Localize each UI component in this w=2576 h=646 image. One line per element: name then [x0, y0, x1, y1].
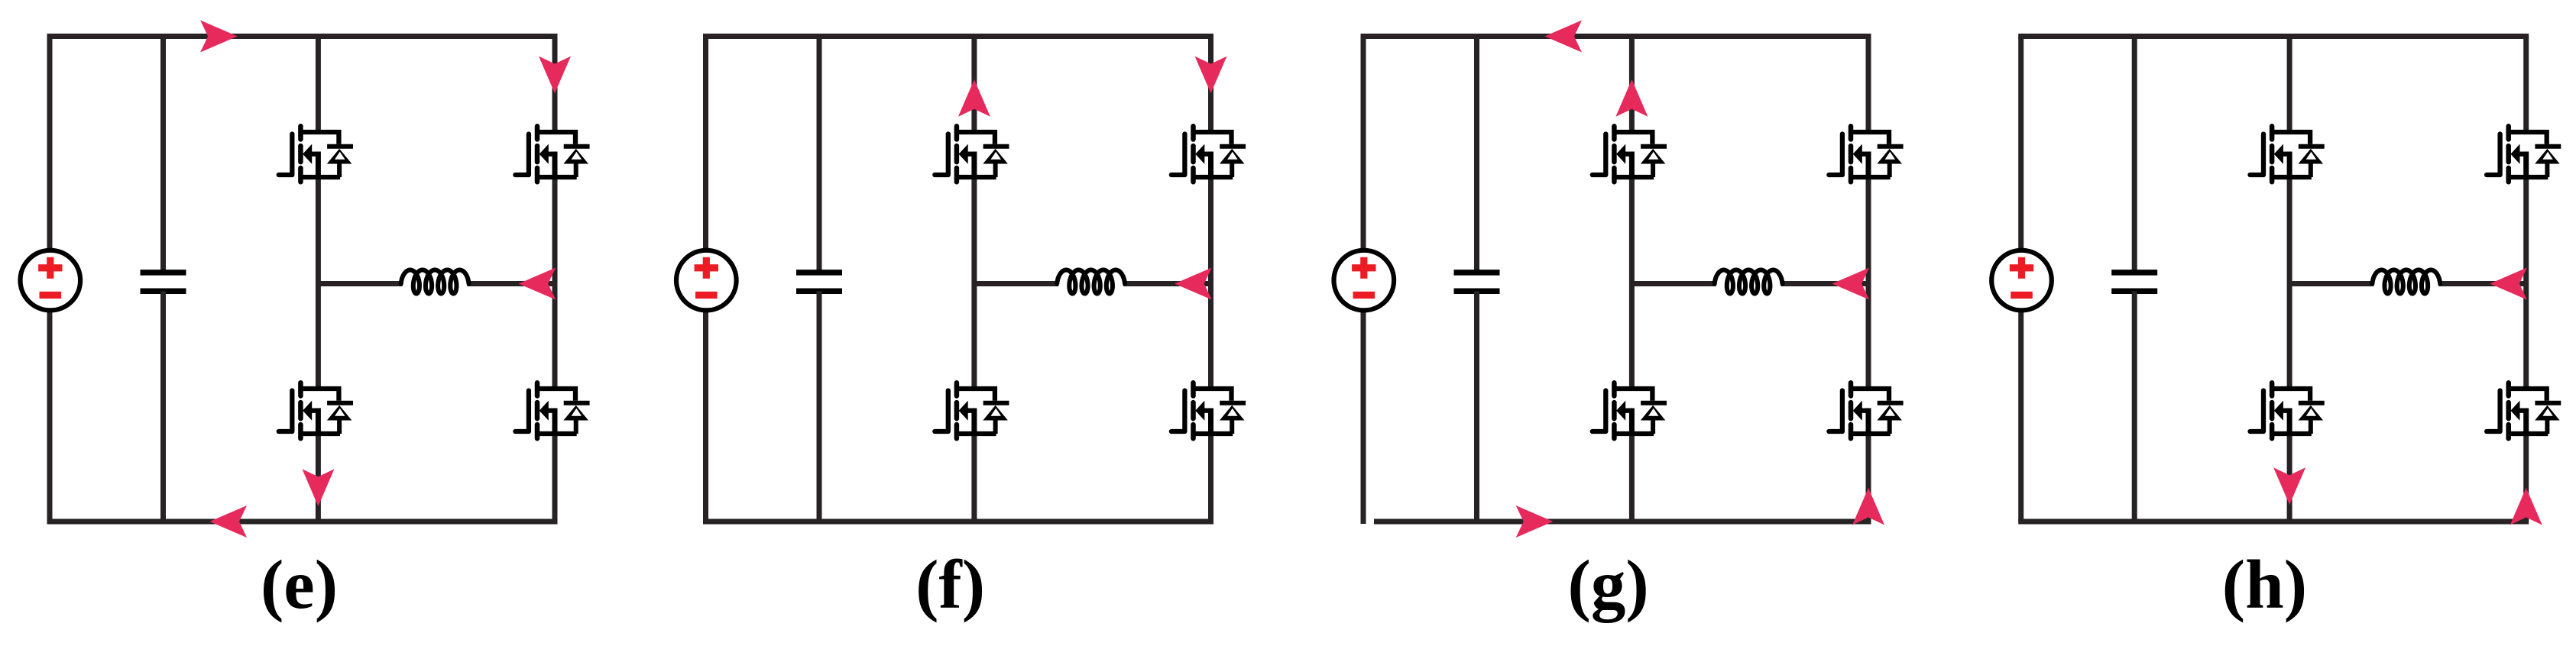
- current arrow top rail left: [1544, 21, 1582, 53]
- wire output right segment: [1123, 281, 1211, 286]
- current arrow left leg down: [302, 469, 334, 506]
- wire capacitor leg upper: [160, 37, 166, 273]
- wire left rail upper: [47, 37, 53, 250]
- svg-text:(h): (h): [2222, 546, 2307, 623]
- MOSFET Q1 with body diode: [1593, 126, 1667, 182]
- wire right rail drain Q2: [1208, 37, 1213, 133]
- wire right rail bottom: [2523, 434, 2529, 522]
- wire output right segment: [2438, 281, 2526, 286]
- svg-text:(e): (e): [261, 546, 338, 623]
- wire output left segment: [1631, 281, 1716, 286]
- wire left bridge leg middle: [2287, 177, 2292, 389]
- wire left rail upper: [703, 37, 708, 250]
- wire output left segment: [2289, 281, 2373, 286]
- wire left bridge leg drain Q1: [971, 37, 977, 133]
- MOSFET Q4 with body diode: [1171, 383, 1246, 438]
- wire right rail bottom: [1866, 434, 1871, 522]
- wire left bridge leg middle: [971, 177, 977, 389]
- capacitor: [1454, 273, 1500, 291]
- current arrow output left: [1175, 268, 1212, 300]
- wire right rail middle: [1866, 177, 1871, 389]
- svg-text:(f): (f): [915, 546, 985, 623]
- current arrow output left: [519, 268, 556, 300]
- MOSFET Q2 with body diode: [2487, 126, 2561, 182]
- wire capacitor leg lower: [1474, 291, 1479, 522]
- current arrow bottom rail left: [209, 505, 247, 538]
- wire capacitor leg upper: [817, 37, 822, 273]
- MOSFET Q3 with body diode: [1593, 383, 1667, 438]
- MOSFET Q2 with body diode: [1171, 126, 1246, 182]
- wire left bridge leg bottom: [316, 434, 321, 522]
- MOSFET Q1 with body diode: [279, 126, 353, 182]
- wire right rail bottom: [1208, 434, 1213, 522]
- MOSFET Q1 with body diode: [935, 126, 1009, 182]
- wire output left segment: [974, 281, 1058, 286]
- svg-text:(g): (g): [1568, 546, 1649, 623]
- capacitor: [796, 273, 842, 291]
- wire left rail upper: [1361, 37, 1366, 250]
- wire left bridge leg drain Q1: [316, 37, 321, 133]
- wire right rail middle: [2523, 177, 2529, 389]
- wire capacitor leg upper: [2132, 37, 2137, 273]
- wire top rail: [703, 34, 1213, 39]
- MOSFET Q2 with body diode: [1829, 126, 1903, 182]
- current arrow bottom rail right: [1516, 505, 1554, 538]
- current arrow right rail up: [2510, 488, 2542, 525]
- MOSFET Q3 with body diode: [279, 383, 353, 438]
- MOSFET Q3 with body diode: [2250, 383, 2325, 438]
- wire right rail middle: [552, 177, 558, 389]
- wire right rail drain Q2: [552, 37, 558, 133]
- wire right rail drain Q2: [1866, 37, 1871, 133]
- wire capacitor leg lower: [160, 291, 166, 522]
- wire bottom rail: [47, 519, 558, 525]
- voltage source: [1334, 250, 1395, 311]
- wire left bridge leg bottom: [2287, 434, 2292, 522]
- inductor L: [1715, 270, 1783, 294]
- wire capacitor leg lower: [2132, 291, 2137, 522]
- voltage source: [1991, 250, 2052, 311]
- voltage source: [676, 250, 737, 311]
- capacitor: [2111, 273, 2157, 291]
- wire top rail: [1361, 34, 1871, 39]
- wire output right segment: [468, 281, 556, 286]
- wire capacitor leg lower: [817, 291, 822, 522]
- current arrow output left: [1832, 268, 1870, 300]
- MOSFET Q4 with body diode: [2487, 383, 2561, 438]
- capacitor: [141, 273, 186, 291]
- current arrow left leg down: [2273, 467, 2305, 505]
- inductor L: [1057, 270, 1125, 294]
- inductor L: [2372, 270, 2440, 294]
- MOSFET Q3 with body diode: [935, 383, 1009, 438]
- wire bottom rail: [2018, 519, 2529, 525]
- wire right rail middle: [1208, 177, 1213, 389]
- current arrow left leg up: [1615, 79, 1648, 117]
- wire left rail lower: [1361, 310, 1366, 524]
- wire left bridge leg middle: [1629, 177, 1635, 389]
- current arrow right rail up: [1852, 488, 1884, 525]
- wire output left segment: [318, 281, 402, 286]
- wire left rail upper: [2018, 37, 2024, 250]
- wire left bridge leg middle: [316, 177, 321, 389]
- wire right rail bottom: [552, 434, 558, 522]
- voltage source: [21, 250, 81, 311]
- wire bottom rail: [703, 519, 1213, 525]
- wire left bridge leg drain Q1: [1629, 37, 1635, 133]
- MOSFET Q2 with body diode: [515, 126, 589, 182]
- current arrow top rail right: [200, 21, 238, 53]
- wire left rail lower: [703, 310, 708, 522]
- wire left bridge leg bottom: [971, 434, 977, 522]
- current arrow right rail down: [1195, 57, 1227, 94]
- MOSFET Q1 with body diode: [2250, 126, 2325, 182]
- current arrow left leg up: [958, 79, 990, 117]
- wire left rail lower: [47, 310, 53, 522]
- wire capacitor leg upper: [1474, 37, 1479, 273]
- wire left bridge leg bottom: [1629, 434, 1635, 522]
- wire right rail drain Q2: [2523, 37, 2529, 133]
- wire left bridge leg drain Q1: [2287, 37, 2292, 133]
- wire top rail: [47, 34, 558, 39]
- wire left rail lower: [2018, 310, 2024, 522]
- MOSFET Q4 with body diode: [515, 383, 589, 438]
- current arrow right rail down: [539, 57, 571, 94]
- wire top rail: [2018, 34, 2529, 39]
- current arrow output left: [2490, 268, 2527, 300]
- wire output right segment: [1781, 281, 1869, 286]
- inductor L: [401, 270, 469, 294]
- MOSFET Q4 with body diode: [1829, 383, 1903, 438]
- wire bottom rail: [1374, 519, 1871, 525]
